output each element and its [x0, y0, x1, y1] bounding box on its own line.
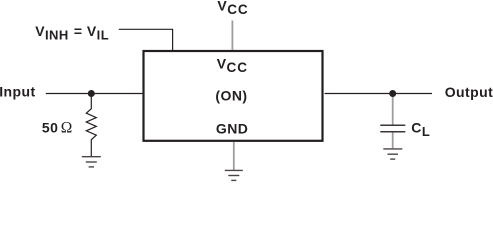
svg-text:50: 50	[42, 120, 58, 136]
svg-text:VCC: VCC	[217, 0, 248, 17]
svg-text:VINH = VIL: VINH = VIL	[35, 23, 109, 42]
svg-text:CL: CL	[411, 120, 430, 139]
svg-text:GND: GND	[216, 121, 248, 137]
svg-text:(ON): (ON)	[215, 88, 247, 104]
svg-text:Output: Output	[445, 84, 493, 100]
svg-text:Ω: Ω	[61, 120, 73, 137]
svg-text:Input: Input	[0, 84, 36, 100]
